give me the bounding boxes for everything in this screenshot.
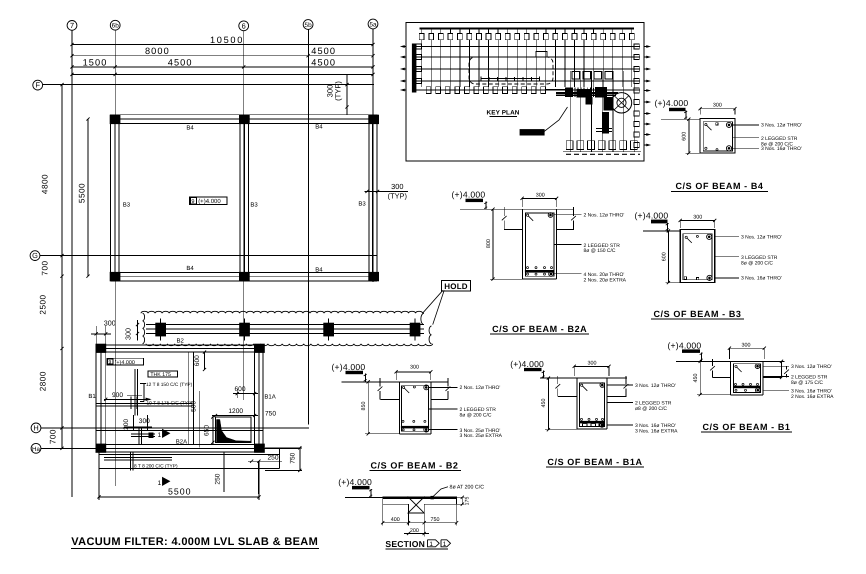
key plan dashed cloud outline — [469, 57, 553, 84]
key plan top chord — [420, 28, 635, 30]
main plan right beam B3 — [368, 115, 370, 281]
datum line B1 — [676, 360, 784, 362]
right dim line B1 with break — [781, 361, 783, 377]
leader notes B2A — [554, 214, 582, 216]
grid bubble 6 — [239, 21, 249, 31]
svg-text:3 Nos. 16ø THRO': 3 Nos. 16ø THRO' — [741, 276, 782, 282]
cloud strip left edge — [143, 313, 145, 344]
extra line inside lower plan at H — [96, 429, 263, 431]
svg-text:8ø @ 175 C/C: 8ø @ 175 C/C — [791, 380, 823, 386]
main plan middle beam B3 on grid 6 — [239, 124, 241, 273]
svg-text:1200: 1200 — [228, 408, 243, 415]
svg-text:300: 300 — [588, 360, 597, 366]
columns main plan — [110, 115, 120, 123]
svg-text:8ø @ 200 C/C: 8ø @ 200 C/C — [460, 413, 492, 419]
svg-text:9: 9 — [109, 360, 112, 366]
grid line G — [40, 255, 377, 257]
svg-text:250: 250 — [215, 473, 222, 484]
grid bubble 5a — [368, 19, 378, 29]
svg-text:THK 175: THK 175 — [150, 372, 171, 378]
stirrup B1 — [734, 364, 761, 393]
dim 450 left B1A — [547, 378, 549, 430]
key plan partial row boxes right top — [572, 72, 580, 80]
svg-text:C/S OF BEAM - B1: C/S OF BEAM - B1 — [702, 422, 790, 432]
svg-text:1: 1 — [158, 432, 162, 439]
flange bottom left B1 — [713, 377, 731, 379]
dim 600 left B4 — [688, 119, 690, 153]
dim 300 TYP right of plan — [365, 190, 408, 192]
grid bubble F — [33, 80, 43, 90]
key plan black tag — [520, 130, 544, 135]
grid bubble 6b — [110, 20, 120, 30]
key plan inner beam line — [481, 78, 540, 80]
svg-text:175: 175 — [465, 497, 471, 506]
svg-text:C/S OF BEAM - B2A: C/S OF BEAM - B2A — [492, 324, 587, 334]
svg-text:3 Nos. 16ø EXTRA: 3 Nos. 16ø EXTRA — [635, 429, 678, 435]
svg-text:10 T 8 175 C/C (TYP): 10 T 8 175 C/C (TYP) — [147, 400, 194, 406]
svg-text:8ø @ 150 C/C: 8ø @ 150 C/C — [584, 248, 616, 254]
svg-text:750: 750 — [431, 517, 440, 523]
svg-text:300: 300 — [742, 342, 751, 348]
dim 5500 left of plan — [87, 119, 89, 276]
svg-text:2800: 2800 — [38, 371, 47, 391]
flange bottom B2A — [504, 228, 523, 230]
svg-text:G: G — [32, 251, 38, 260]
svg-text:C/S OF BEAM - B3: C/S OF BEAM - B3 — [653, 309, 741, 319]
svg-text:B3: B3 — [358, 200, 366, 207]
HOLD box — [442, 280, 471, 291]
stirrup B1A — [580, 383, 605, 427]
dim 300 top B1A — [574, 365, 609, 367]
grid bubble Ha — [31, 443, 41, 453]
svg-text:900: 900 — [112, 392, 123, 399]
svg-text:4500: 4500 — [311, 46, 336, 56]
level box 9 (+)4.000 main plan — [190, 197, 227, 205]
svg-text:2500: 2500 — [38, 294, 47, 314]
svg-text:1500: 1500 — [83, 57, 108, 67]
lower plan bottom extension band — [99, 454, 280, 456]
rebar callout horizontal lines — [96, 402, 192, 404]
dim 300 TYP top right — [346, 74, 348, 115]
svg-text:450: 450 — [541, 399, 547, 408]
key plan left columns — [416, 44, 421, 49]
lower plan interior beam B2A vertical — [188, 352, 190, 444]
datum line SECTION — [345, 496, 383, 498]
grid bubble G — [30, 251, 40, 261]
svg-text:3 Nos. 25ø EXTRA: 3 Nos. 25ø EXTRA — [460, 433, 503, 439]
key plan right edge squares — [634, 44, 639, 49]
slab top thick — [383, 496, 457, 498]
svg-text:F: F — [35, 81, 40, 90]
break marks B2A — [503, 207, 505, 216]
svg-text:1: 1 — [443, 541, 447, 548]
svg-text:600: 600 — [661, 252, 667, 261]
svg-text:(+)4.000: (+)4.000 — [115, 360, 135, 366]
svg-text:9: 9 — [191, 199, 194, 205]
level box 9 (+)4.000 lower plan — [107, 358, 144, 365]
dim 300 top B2 — [396, 371, 431, 373]
flange bottom right B1A — [607, 396, 627, 398]
stirrup B4 — [703, 122, 732, 151]
flange bottom right B1 — [763, 377, 782, 379]
svg-text:10500: 10500 — [210, 35, 244, 45]
svg-text:3 Nos. 12ø THRO': 3 Nos. 12ø THRO' — [635, 383, 676, 389]
svg-text:300: 300 — [410, 365, 419, 371]
svg-text:B4: B4 — [186, 125, 194, 132]
svg-text:600: 600 — [234, 386, 245, 393]
datum line B2A — [460, 208, 574, 210]
grid line 6b — [114, 30, 116, 486]
svg-text:3 Nos. 12ø THRO': 3 Nos. 12ø THRO' — [761, 123, 802, 129]
svg-text:1: 1 — [429, 541, 433, 548]
svg-text:Ha: Ha — [32, 446, 40, 453]
grid line 7 — [71, 30, 73, 497]
lower plan left beam B1 — [95, 345, 97, 452]
svg-text:SECTION: SECTION — [385, 539, 425, 549]
dim 450 left B1 — [699, 361, 701, 394]
beam outline B1 — [730, 361, 732, 395]
strip beam B2 lines — [146, 324, 424, 326]
svg-text:8ø @ 200 C/C: 8ø @ 200 C/C — [741, 260, 773, 266]
stirrup B2A — [525, 213, 553, 276]
svg-text:HOLD: HOLD — [444, 282, 467, 291]
columns lower plan — [96, 344, 106, 352]
lower plan bottom beam — [96, 443, 263, 445]
rebar B2A — [527, 214, 529, 216]
rebar B1A — [581, 384, 583, 386]
svg-text:700: 700 — [41, 260, 50, 275]
dim 850 left B2 — [367, 382, 369, 434]
cloud strip right edge — [421, 313, 424, 324]
svg-text:600: 600 — [194, 355, 201, 366]
svg-text:B3: B3 — [250, 202, 258, 209]
key plan cloud notch — [536, 52, 547, 58]
grid line F — [43, 84, 375, 86]
line below plan — [223, 452, 225, 492]
cloud strip top edge — [141, 311, 423, 313]
svg-text:B3: B3 — [123, 202, 131, 209]
leader notes B3 — [715, 236, 739, 238]
key plan right area verticals — [569, 71, 571, 152]
key plan left border arrows — [402, 46, 407, 48]
svg-text:B2: B2 — [177, 337, 185, 344]
datum line B2 — [342, 381, 449, 383]
slab ends — [382, 497, 384, 505]
grid line 6 — [243, 31, 245, 400]
svg-text:VACUUM FILTER: 4.000M LVL SLAB: VACUUM FILTER: 4.000M LVL SLAB & BEAM — [71, 536, 318, 548]
key plan left black bar — [412, 44, 416, 92]
svg-text:3 Nos. 16ø THRO': 3 Nos. 16ø THRO' — [761, 146, 802, 152]
break marks B1A — [557, 376, 559, 384]
svg-text:B1A: B1A — [264, 393, 275, 400]
datum line B1A — [540, 377, 627, 379]
svg-text:7: 7 — [70, 21, 74, 30]
svg-text:300: 300 — [391, 182, 403, 191]
datum line B4 — [661, 118, 700, 120]
key plan dense cluster — [566, 88, 573, 97]
leader notes B2 — [429, 386, 458, 388]
grid line Ha — [41, 447, 300, 449]
svg-text:800: 800 — [486, 239, 492, 248]
svg-text:C/S OF BEAM - B2: C/S OF BEAM - B2 — [370, 460, 458, 470]
beam outline B3 — [680, 229, 715, 282]
svg-text:4500: 4500 — [168, 57, 193, 67]
svg-text:5a: 5a — [369, 22, 377, 29]
dim 600 left B3 — [667, 231, 669, 283]
svg-text:(+)4.000: (+)4.000 — [452, 190, 486, 200]
svg-text:(TYP): (TYP) — [334, 81, 343, 101]
svg-text:8ø AT 200 C/C: 8ø AT 200 C/C — [450, 484, 485, 490]
svg-text:C/S OF BEAM - B4: C/S OF BEAM - B4 — [675, 181, 763, 191]
dim row 8000 / 4500 — [72, 55, 373, 57]
callout cross ticks — [130, 397, 132, 410]
main plan top beam B4 — [110, 114, 377, 116]
leader 8 dia AT 200 C/C — [432, 487, 448, 498]
svg-text:200: 200 — [123, 419, 130, 430]
rebar callout vertical lines — [134, 369, 136, 415]
svg-text:(+)4.000: (+)4.000 — [655, 98, 689, 108]
svg-text:6b: 6b — [112, 23, 120, 30]
svg-text:B2A: B2A — [176, 438, 187, 445]
svg-text:(+)4.000: (+)4.000 — [198, 198, 221, 205]
svg-text:ø8 @ 200 C/C: ø8 @ 200 C/C — [635, 406, 667, 412]
main plan bottom beam B4 — [110, 271, 377, 273]
svg-text:2 Nos. 12ø THRO': 2 Nos. 12ø THRO' — [460, 385, 501, 391]
svg-text:750: 750 — [265, 410, 276, 417]
wedge detail box — [216, 417, 251, 442]
svg-text:300: 300 — [536, 192, 545, 198]
break marks B1 — [712, 359, 714, 366]
THK 175 box — [148, 371, 178, 377]
svg-text:(+)4.000: (+)4.000 — [510, 359, 544, 369]
svg-text:C/S OF BEAM - B1A: C/S OF BEAM - B1A — [547, 457, 642, 467]
grid bubble 7 — [67, 21, 77, 31]
X cross — [408, 497, 425, 514]
svg-text:300: 300 — [713, 103, 722, 109]
beam outline B1A — [576, 378, 578, 429]
key plan top columns row — [419, 34, 424, 40]
svg-text:(+)4.000: (+)4.000 — [332, 362, 366, 372]
dim 175 right — [457, 496, 465, 498]
svg-text:300: 300 — [139, 418, 150, 425]
cloud strip bottom edge — [146, 344, 433, 346]
dim 300 top B3 — [680, 219, 715, 221]
flange bottom right B2 — [431, 398, 448, 400]
leader notes B1 — [763, 365, 789, 367]
key plan border — [406, 23, 644, 162]
grid bubble 5b — [303, 20, 313, 30]
leader notes B4 — [732, 124, 759, 126]
stirrup B2 — [401, 386, 428, 432]
HOLD leader lines — [423, 290, 443, 313]
dim row 1500 / 4500 / 4500 — [72, 66, 373, 68]
svg-text:6: 6 — [242, 21, 246, 30]
rebar cross symbol — [138, 427, 140, 445]
rebar B1 — [735, 365, 737, 367]
svg-text:850: 850 — [361, 402, 367, 411]
key plan right border arrows — [644, 46, 650, 48]
rebar B4 — [705, 124, 707, 126]
key plan cluster lower blobs — [603, 113, 609, 134]
svg-text:450: 450 — [693, 374, 699, 383]
svg-text:3 Nos. 12ø THRO': 3 Nos. 12ø THRO' — [791, 364, 832, 370]
svg-text:500: 500 — [191, 401, 198, 412]
dim row line — [72, 73, 373, 75]
beam outline B4 — [700, 118, 735, 153]
svg-text:B4: B4 — [315, 267, 323, 274]
lower plan right beam B1A — [254, 345, 256, 452]
svg-text:600: 600 — [682, 132, 688, 141]
svg-text:(+)4.000: (+)4.000 — [668, 340, 702, 350]
svg-text:4500: 4500 — [311, 58, 336, 68]
dim 5500 bottom — [99, 496, 259, 498]
beam outline B2A — [522, 209, 524, 279]
svg-text:1: 1 — [158, 480, 162, 487]
key plan horizontal grids — [415, 46, 641, 48]
key plan pump circle — [611, 93, 631, 113]
strip columns — [156, 323, 166, 336]
leader notes B1A — [607, 384, 633, 386]
rebar B2 — [403, 386, 405, 388]
dim 300 top B2A — [522, 197, 557, 199]
slab bottom — [383, 503, 409, 505]
svg-text:200: 200 — [410, 528, 419, 534]
svg-text:300: 300 — [693, 214, 702, 220]
beam notch — [408, 504, 410, 513]
key plan bottom row squares — [566, 141, 573, 150]
svg-text:5500: 5500 — [168, 487, 192, 497]
grid bubble H — [31, 423, 41, 433]
svg-text:2 Nos. 12ø THRO': 2 Nos. 12ø THRO' — [584, 213, 625, 219]
svg-text:4800: 4800 — [41, 174, 50, 194]
svg-text:(+)4.000: (+)4.000 — [338, 477, 372, 487]
grid line 5b — [307, 29, 309, 424]
dim 300 top B1 — [729, 347, 764, 349]
lower plan top beam — [96, 344, 263, 346]
svg-text:H: H — [33, 423, 38, 432]
datum line B3 — [643, 230, 680, 232]
svg-text:KEY PLAN: KEY PLAN — [487, 110, 520, 117]
flange bottom left B2 — [381, 398, 400, 400]
svg-text:700: 700 — [49, 429, 58, 444]
wedge black fill — [217, 420, 251, 443]
svg-text:B1: B1 — [88, 393, 96, 400]
svg-text:2 Nos. 20ø EXTRA: 2 Nos. 20ø EXTRA — [584, 277, 627, 283]
break marks B2 — [379, 378, 381, 387]
svg-text:8000: 8000 — [145, 46, 170, 56]
svg-text:5500: 5500 — [78, 183, 87, 203]
bottom dims SECTION — [382, 504, 384, 526]
dim 800 left B2A — [492, 209, 494, 279]
grid line H — [41, 427, 309, 429]
main plan left beam B3 — [109, 115, 111, 281]
grid line 5a — [372, 29, 374, 282]
dim row 10500 — [72, 44, 373, 46]
key plan cluster hatch — [565, 88, 567, 98]
svg-text:300: 300 — [123, 328, 132, 340]
svg-text:3 Nos. 12ø THRO': 3 Nos. 12ø THRO' — [741, 235, 782, 241]
key plan bottom dashed line — [566, 153, 640, 155]
svg-text:(TYP): (TYP) — [388, 191, 407, 200]
left dim chain — [61, 85, 63, 449]
svg-text:B4: B4 — [186, 265, 194, 272]
rebar B3 — [685, 236, 687, 238]
dim 300 top B4 — [700, 108, 735, 110]
flange bottom left B1A — [558, 396, 577, 398]
svg-text:5b: 5b — [305, 22, 313, 29]
key plan middle columns row — [426, 87, 431, 94]
svg-text:(+)4.000: (+)4.000 — [635, 211, 669, 221]
svg-text:B4: B4 — [315, 124, 323, 131]
svg-text:250: 250 — [267, 455, 278, 462]
svg-text:12 T 8 150 C/C (TYP): 12 T 8 150 C/C (TYP) — [146, 382, 193, 388]
stirrup B3 — [683, 234, 712, 280]
svg-text:750: 750 — [290, 452, 297, 463]
beam outline B2 — [398, 382, 400, 434]
svg-text:2 Nos. 16ø EXTRA: 2 Nos. 16ø EXTRA — [791, 394, 834, 400]
svg-text:8 T 8 200 C/C (TYP): 8 T 8 200 C/C (TYP) — [134, 464, 178, 470]
svg-text:400: 400 — [391, 517, 400, 523]
